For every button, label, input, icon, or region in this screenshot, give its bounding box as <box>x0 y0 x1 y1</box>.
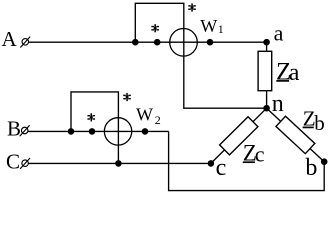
wattmeter W2 (meter circle) <box>104 118 131 145</box>
svg-text:c: c <box>216 155 227 181</box>
wire: phase B line <box>28 130 169 132</box>
polarity mark * (W1 current coil) <box>151 24 159 32</box>
svg-text:2: 2 <box>155 113 161 127</box>
junction on C: W2 voltage lead <box>115 160 122 167</box>
polarity mark * (W2 current coil) <box>87 113 95 121</box>
junction on A: W1 loop left <box>132 39 139 46</box>
wire: phase A line <box>29 41 267 43</box>
terminal A (phi symbol) <box>20 37 30 48</box>
svg-text:A: A <box>2 27 18 51</box>
svg-text:B: B <box>7 117 21 141</box>
impedance Zc (box) <box>220 117 258 155</box>
polarity mark * (W2 voltage coil) <box>123 93 131 101</box>
wire: phase B run to node b (down, along bottom, up) <box>169 131 325 190</box>
wattmeter W1 (meter circle) <box>170 29 198 57</box>
svg-text:W: W <box>136 104 153 124</box>
wire: node a down to node n (behind Za) <box>266 42 268 108</box>
svg-text:a: a <box>289 60 300 86</box>
junction on B: W2 polarity terminal <box>89 128 96 135</box>
terminal B (phi symbol) <box>20 125 30 136</box>
value label Za <box>276 58 300 86</box>
junction on B: W2 output side <box>142 128 149 135</box>
wire: node n to node b diagonal (behind Zb) <box>267 108 325 162</box>
wire: node n to node c diagonal (behind Zc) <box>211 108 267 163</box>
svg-text:1: 1 <box>218 22 224 36</box>
wire: phase C line <box>28 162 211 164</box>
junction on B: W2 loop left <box>68 128 75 135</box>
junction on A: W1 output side <box>207 39 214 46</box>
value label Zb <box>303 106 325 134</box>
node b <box>321 158 328 165</box>
svg-text:n: n <box>272 91 284 117</box>
svg-text:b: b <box>305 155 317 181</box>
node a <box>263 39 270 46</box>
svg-text:a: a <box>274 21 284 46</box>
wire: W2 current-coil loop and voltage lead down to line C <box>71 92 118 163</box>
wire: W1 current-coil loop and voltage lead down to node n <box>135 3 266 108</box>
svg-text:b: b <box>314 111 325 135</box>
svg-text:W: W <box>200 16 217 36</box>
terminal C (phi symbol) <box>20 158 30 169</box>
node n <box>263 105 270 112</box>
impedance Zb (box) <box>276 116 315 153</box>
value label Zc <box>243 141 265 167</box>
svg-text:c: c <box>255 141 265 166</box>
impedance Za (box) <box>258 51 272 90</box>
node c <box>208 160 215 167</box>
svg-text:C: C <box>6 150 20 174</box>
polarity mark * (W1 voltage coil) <box>188 3 196 11</box>
junction on A: W1 polarity terminal <box>154 39 161 46</box>
